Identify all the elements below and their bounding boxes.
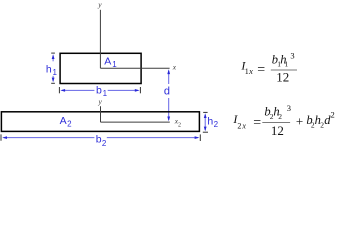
rectangle A2: [1, 112, 199, 132]
svg-text:12: 12: [271, 123, 284, 138]
h1 down arrow: [52, 76, 54, 81]
h2 down arrowhead: [204, 127, 207, 132]
formula I1x: [240, 51, 297, 85]
h1 bottom tick: [51, 82, 55, 84]
svg-text:1: 1: [285, 59, 289, 68]
h1 top tick: [51, 52, 55, 54]
b2 left arrow: [4, 137, 95, 139]
svg-text:2: 2: [237, 121, 241, 130]
svg-text:3: 3: [287, 103, 291, 113]
svg-text:2: 2: [278, 112, 282, 121]
b1 left arrow: [62, 89, 95, 91]
h2 up arrowhead: [204, 113, 207, 118]
dimension d: [164, 69, 170, 121]
svg-text:x: x: [248, 66, 253, 76]
dimension h1: [46, 53, 58, 83]
svg-text:=: =: [257, 62, 265, 77]
dimension b2: [1, 134, 200, 148]
svg-text:y: y: [97, 0, 102, 9]
svg-text:=: =: [253, 116, 261, 131]
x2 axis (bottom diagram): [101, 121, 170, 123]
svg-text:d: d: [164, 85, 170, 97]
rectangle A1: [60, 53, 141, 83]
b2 right tick: [199, 134, 201, 141]
dimension h2: [203, 112, 219, 132]
formula I2x: [232, 103, 334, 138]
svg-text:3: 3: [290, 51, 294, 61]
b1 right tick: [139, 87, 141, 93]
b1 left tick: [58, 87, 60, 93]
svg-text:2: 2: [331, 110, 335, 120]
dimension b1: [59, 84, 140, 97]
b2 right arrow: [107, 137, 198, 139]
y axis (top diagram): [99, 10, 101, 68]
svg-text:x: x: [241, 122, 246, 131]
b1 right arrow: [108, 89, 138, 91]
d down arrow: [168, 98, 170, 120]
h2 top tick: [203, 111, 207, 113]
svg-text:12: 12: [276, 69, 289, 84]
fraction bar F1: [271, 69, 297, 71]
h2 double arrow shaft: [204, 115, 206, 130]
svg-text:y: y: [98, 97, 103, 106]
h1 up arrow: [52, 56, 54, 62]
fraction bar F2: [262, 122, 290, 124]
x axis (top diagram): [100, 67, 169, 69]
svg-text:+: +: [296, 114, 303, 129]
h2 bottom tick: [203, 131, 208, 133]
y axis (bottom diagram): [100, 106, 102, 122]
d up arrow: [168, 71, 170, 84]
svg-text:x: x: [172, 62, 177, 71]
b2 left tick: [0, 134, 2, 140]
svg-text:1: 1: [245, 67, 249, 76]
